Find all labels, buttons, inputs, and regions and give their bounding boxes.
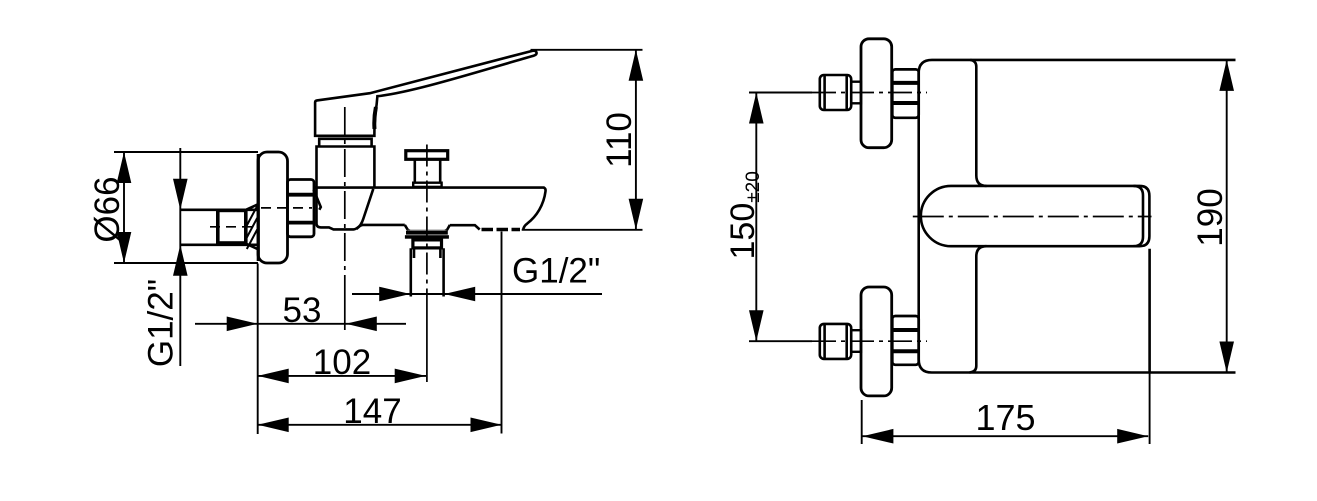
bottom hex nut bbox=[892, 316, 918, 365]
extension line from flange face bbox=[257, 264, 259, 435]
top nut facet lines bbox=[892, 83, 918, 103]
shower outlet band 1 bbox=[406, 231, 448, 235]
spout top edge bbox=[314, 186, 545, 189]
body lower right edge bbox=[1148, 249, 1151, 373]
dimension Ø66 line bbox=[123, 152, 125, 263]
handle lever bbox=[315, 51, 536, 136]
thread hatching bbox=[247, 206, 257, 249]
dimension Ø66 arrows bbox=[117, 152, 132, 263]
thread dimension line G1/2 (left) bbox=[179, 148, 181, 366]
dimension 175 arrows bbox=[862, 429, 1148, 444]
handle capsule top and bottom bbox=[951, 186, 1140, 246]
spout underside right of outlet bbox=[450, 225, 480, 229]
shower outlet gray seam bbox=[408, 229, 447, 231]
handle capsule left arc bbox=[921, 186, 951, 246]
svg-text:53: 53 bbox=[283, 291, 322, 330]
handle cap outer end bbox=[1140, 186, 1150, 246]
cone transition nut to body bbox=[314, 190, 321, 210]
outlet centerline (vertical) bbox=[426, 145, 428, 299]
shower outlet ring bbox=[413, 240, 442, 248]
body front diagonal bbox=[357, 189, 374, 229]
dimension 190 arrows bbox=[1219, 60, 1234, 373]
svg-text:190: 190 bbox=[1191, 188, 1230, 246]
top wall flange bbox=[861, 39, 892, 148]
extension line from spout tip bbox=[501, 232, 503, 434]
dimension Ø66 extension lines bbox=[114, 152, 258, 263]
spout hidden aerator dashes bbox=[482, 228, 521, 232]
inlet pipe thread square bbox=[218, 210, 246, 243]
dimension 150 line bbox=[755, 93, 757, 342]
dimension 110 extension lines bbox=[522, 50, 643, 230]
bottom connector stub bbox=[851, 330, 861, 352]
dimension 147 arrows bbox=[258, 418, 502, 433]
wall flange (escutcheon, side view) bbox=[258, 152, 288, 263]
svg-text:G1/2": G1/2" bbox=[512, 252, 600, 291]
dimension 175 line bbox=[862, 435, 1148, 437]
svg-text:Ø66: Ø66 bbox=[88, 176, 127, 242]
body centerline (vertical) bbox=[344, 107, 346, 300]
diverter knob base bbox=[413, 183, 441, 187]
body front face line lower bbox=[970, 246, 987, 372]
shower outlet step chamfers bbox=[405, 225, 450, 231]
dimension 175 extension line left bbox=[861, 400, 863, 444]
dimension 102 line bbox=[258, 375, 426, 377]
inlet pipe (wall connection) bbox=[181, 210, 259, 245]
diverter knob cap bbox=[406, 151, 448, 160]
svg-text:175: 175 bbox=[975, 397, 1035, 438]
shower outlet band 2 bbox=[405, 235, 449, 239]
body barrel outline bbox=[317, 188, 405, 230]
top connector stub bbox=[851, 82, 861, 104]
body top edge (with 190 extension) bbox=[932, 59, 1236, 62]
dimension G1/2 (shower outlet) line bbox=[352, 293, 602, 295]
diverter knob stem bbox=[415, 159, 440, 182]
dimension 147 line bbox=[258, 424, 502, 426]
spout tip curve bbox=[523, 188, 545, 231]
inlet pipe flare bbox=[247, 205, 258, 249]
top hex nut bbox=[892, 69, 918, 117]
dimension 175 extension line right bbox=[1149, 373, 1151, 445]
dimension 110 line bbox=[635, 50, 637, 230]
handle thumb notch bbox=[374, 107, 376, 129]
dimension 110 arrows bbox=[629, 50, 644, 230]
shower outlet pipe inner lines bbox=[414, 248, 440, 258]
top eccentric fitting bbox=[820, 75, 851, 110]
top fitting inner lines bbox=[825, 75, 847, 110]
handle cap inner face bbox=[1134, 186, 1144, 246]
dimension 150 extension lines bbox=[749, 93, 812, 342]
top fitting centerline bbox=[812, 92, 927, 94]
shower outlet pipe sides bbox=[411, 248, 444, 296]
bottom fitting centerline bbox=[812, 340, 927, 342]
svg-text:G1/2": G1/2" bbox=[142, 279, 181, 367]
cartridge housing bbox=[317, 147, 375, 188]
wall flange left face (thick) bbox=[257, 154, 260, 261]
bottom wall flange bbox=[861, 287, 892, 396]
body front face line upper bbox=[970, 60, 986, 186]
handle centerline bbox=[913, 216, 1152, 218]
svg-text:147: 147 bbox=[343, 392, 401, 431]
inlet pipe centerline bbox=[210, 226, 254, 228]
bottom eccentric fitting bbox=[820, 324, 851, 359]
bottom nut facet lines bbox=[892, 330, 918, 351]
dimension 102 arrows bbox=[258, 369, 426, 384]
handle adapter ring bbox=[319, 139, 371, 147]
hex nut facet lines bbox=[288, 195, 315, 223]
svg-text:110: 110 bbox=[600, 112, 639, 168]
svg-text:102: 102 bbox=[313, 343, 371, 382]
dimension 53 line bbox=[195, 323, 406, 325]
nut centerline bbox=[261, 207, 312, 209]
thread dimension arrows bbox=[173, 179, 188, 276]
dimension 190 line bbox=[1226, 60, 1228, 373]
svg-text:150±20: 150±20 bbox=[724, 171, 764, 259]
bottom fitting inner lines bbox=[825, 324, 847, 359]
dimension 150 arrows bbox=[749, 93, 764, 342]
dimension G1/2 arrows bbox=[379, 287, 475, 302]
dimension 53 arrows bbox=[227, 317, 377, 332]
body left edge and bottom edge bbox=[919, 60, 1236, 373]
hex nut (left view) bbox=[288, 180, 315, 237]
